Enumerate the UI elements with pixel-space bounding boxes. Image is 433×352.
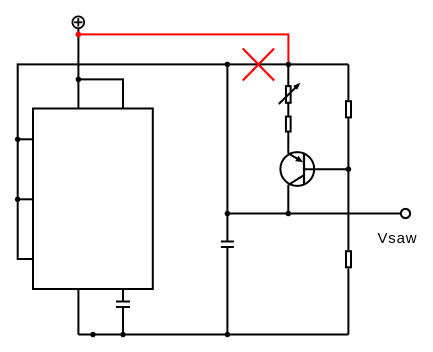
node: red wire lands on top rail [286,62,292,68]
node: output junction on timing branch [225,211,231,217]
wire: left pin stub 1 [18,138,33,140]
node: top rail / timing branch junction [225,62,231,68]
node on left rail (pin 1) [15,137,21,143]
node: red supply tap [76,32,82,38]
node on ground rail [90,332,96,338]
wire: output line to Vsaw terminal [227,213,400,215]
wire: collector lead down to output line [287,185,289,214]
capacitor C2 [221,242,234,335]
wire: bottom ground rail [78,334,348,336]
wire: top horizontal rail [18,63,349,65]
wire: timing branch vertical [226,64,228,241]
wire: right rail middle segment [347,119,349,251]
node: supply / top pin junction [76,77,82,83]
wire: supply vertical from terminal to IC top pin [77,29,79,109]
wire: top pin tie stub [78,79,123,108]
resistor R4 [346,251,351,267]
output terminal Vsaw [401,209,410,218]
resistor R3 [346,101,351,117]
wire: right rail lower segment to ground rail [347,269,349,335]
IC U1 body [33,109,153,290]
power supply positive terminal [72,16,84,28]
error X mark [243,49,274,81]
wire: lead from R2 to transistor emitter [287,132,289,154]
resistor R2 [286,117,291,132]
wire: left pin stub 2 [18,198,33,200]
node: C1 ground junction [120,332,126,338]
wire: left rail with bottom pin stub [18,63,33,259]
wire: base lead to right rail [304,168,348,170]
node: C2 ground junction [225,332,231,338]
wire: lead from top rail to potentiometer [287,64,289,86]
node on left rail (pin 2) [15,197,21,203]
transistor Q1 [280,152,314,186]
wire: lead between R1 and R2 [287,103,289,117]
svg-text:Vsaw: Vsaw [378,230,418,247]
potentiometer R1 [279,83,301,104]
wire: right rail upper segment [347,64,349,100]
wire: red supply wire (error path) [78,34,288,63]
capacitor C1 [116,289,130,335]
wire: IC bottom lead to ground rail [77,289,79,335]
node: collector / output junction [286,211,292,217]
node: base / right rail junction [346,166,352,172]
